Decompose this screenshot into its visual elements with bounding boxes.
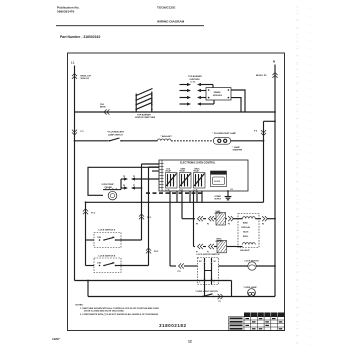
svg-text:LAMP SWITCH: LAMP SWITCH [108,133,123,136]
connector chevron lock feed [83,209,88,214]
svg-text:L1: L1 [71,61,75,65]
svg-text:P4: P4 [231,188,233,191]
connector chevron on L1 rail lower [72,130,77,135]
connector row igniter 1 [180,83,214,88]
relay K1 [166,169,178,192]
wire bottom bus [88,296,275,298]
connector chevron on N rail [272,73,277,78]
node L1 [71,61,75,65]
svg-text:* FLUORESCENT LAMP: * FLUORESCENT LAMP [213,132,237,135]
wire main low-voltage bus [86,201,264,203]
notes text [76,305,160,317]
oven gas valve [238,214,259,252]
svg-text:TOP BURNER: TOP BURNER [137,114,151,116]
svg-text:50/60 HZ: 50/60 HZ [81,78,90,80]
wire return branch [264,120,276,122]
connector row igniter 4 [180,100,215,106]
label top burner ignitors [188,76,202,83]
wire N rail [274,65,276,297]
svg-text:P5: P5 [228,224,230,226]
svg-text:BK/W: BK/W [100,107,106,109]
svg-text:P3: P3 [219,301,221,303]
svg-text:VALVE: VALVE [243,231,249,234]
svg-text:5995391479: 5995391479 [57,10,74,14]
oven lamp LP1 [243,286,257,297]
wire lock A to chevron [121,239,142,241]
lock switch A [94,228,121,247]
wire sensor loop top [88,167,159,195]
svg-text:ELECTRONIC OVEN CONTROL: ELECTRONIC OVEN CONTROL [180,162,216,165]
svg-text:RELAY: RELAY [194,170,200,173]
svg-text:1. SWITCHES SHOWN WITH ALL CON: 1. SWITCHES SHOWN WITH ALL CONTROLS OFF … [80,307,159,310]
connector chevron on L1 rail [72,74,77,79]
svg-text:DOOR CLOSED AND DOOR UNLOCKED.: DOOR CLOSED AND DOOR UNLOCKED. [84,310,125,313]
svg-text:OVEN GAS: OVEN GAS [241,226,251,229]
svg-text:TOP BURNER: TOP BURNER [188,76,202,78]
wire L1 rail lower [74,112,76,281]
power supply ground [215,188,233,200]
wire drop to bottom bus left [87,281,89,297]
svg-text:* BALLAST: * BALLAST [161,135,173,138]
ballast L1 [121,140,158,142]
svg-text:* LAMP: * LAMP [233,146,241,149]
svg-text:RELAY: RELAY [166,170,172,173]
wire broil igniter to valve [227,246,239,248]
wire EOC pin stubs [142,164,160,171]
svg-text:COM: COM [97,263,102,265]
broil igniter HTR2 [216,239,227,253]
svg-text:BROIL: BROIL [243,236,248,238]
svg-text:P1: P1 [133,185,135,187]
wire L1 rail [74,66,76,113]
svg-text:SUPPLY: SUPPLY [215,198,222,200]
broil igniter row [194,244,218,254]
wire lock motor feed [170,263,198,273]
lock motor M1 [219,260,276,270]
relay K3 [194,169,206,192]
connector chevron lock B right [146,248,151,253]
header rule [56,25,204,27]
svg-text:BK/W-1 5P: BK/W-1 5P [256,75,267,77]
electronic oven control U2 [159,160,248,191]
svg-text:2. COMPONENTS WITH (*) IS IN N: 2. COMPONENTS WITH (*) IS IN NOT SHOWN I… [80,313,159,316]
wire probe upper lead with connector [121,176,159,190]
EOC terminal number labels [146,192,202,194]
node N [273,60,276,64]
connector row igniter 2 [180,89,207,92]
wire lamp to return [231,140,264,142]
fluorescent lamp FL1 [214,137,231,144]
svg-text:* OVEN LAMP: * OVEN LAMP [243,286,257,289]
svg-text:LOCK MOTOR SWITCH: LOCK MOTOR SWITCH [197,254,220,256]
wire spark module out upper [231,90,245,112]
svg-text:N L1: N L1 [180,189,184,191]
svg-text:LOCK SWITCH B: LOCK SWITCH B [99,255,116,257]
connector chevron lock A right [139,214,144,219]
diagram border frame [68,53,285,331]
svg-text:P2: P2 [207,224,209,226]
wire top bus [75,111,276,113]
relay K2 [180,168,192,192]
svg-text:12: 12 [188,339,192,343]
lock motor switch state table [229,313,285,331]
wire vertical to lock switch A [141,164,143,240]
label diagram number [159,323,187,328]
connector chevron on return branch [261,130,266,135]
wire L1 rail bottom turn [75,280,232,282]
wire drop to bottom bus right [231,281,233,297]
oven light switch [195,291,223,303]
fluorescent lamp switch S1 [75,140,109,142]
svg-text:318002182: 318002182 [159,323,187,328]
wire bake igniter to valve [226,216,239,226]
wire lock B to chevron [121,265,149,267]
svg-text:GAS VALVE: GAS VALVE [240,249,250,252]
svg-text:P9: P9 [123,176,125,178]
svg-text:* OVEN LIGHT SWITCH: * OVEN LIGHT SWITCH [195,291,218,293]
wire dashed to fluorescent lamp [171,140,213,142]
top burner ignitor switch bank [135,89,156,120]
svg-text:* FLUORESCENT: * FLUORESCENT [107,132,125,134]
svg-text:P8: P8 [196,224,198,226]
svg-text:LOCK SWITCH A: LOCK SWITCH A [99,228,116,231]
header publication text [57,6,185,40]
wire probe lower lead with connector [121,185,142,190]
svg-text:Part Number - 316002162: Part Number - 316002162 [60,35,100,39]
bake igniter HTR1 [215,210,226,225]
svg-text:RELAY: RELAY [180,170,186,173]
svg-text:IGNITOR SWITCHES: IGNITOR SWITCHES [135,117,156,119]
terminal strip [161,160,163,191]
oven temperature probe RT1 [102,184,122,200]
svg-text:TG/36/CCSG: TG/36/CCSG [157,6,176,10]
wire spark module out lower [231,98,241,112]
svg-text:NOTES:: NOTES: [76,305,84,307]
footer page number [188,339,192,343]
connector chevron on top bus [104,109,109,114]
svg-text:1 2 3 4: 1 2 3 4 [190,80,195,83]
wire valve to N rail [259,216,276,226]
bake igniter row [182,216,216,226]
svg-text:10/97: 10/97 [52,337,60,341]
clock display U3 [211,171,227,187]
wire vertical to lock switch B [148,167,150,266]
svg-text:SPARK: SPARK [214,91,222,94]
svg-text:P70: P70 [178,271,181,273]
svg-text:STARTER: STARTER [233,148,243,151]
svg-text:P4: P4 [262,223,264,226]
svg-text:P6: P6 [123,185,125,187]
svg-text:P3: P3 [133,176,135,178]
footer date [52,337,60,341]
connector row igniter 3 [180,96,207,99]
svg-text:WIRING DIAGRAM: WIRING DIAGRAM [157,20,185,24]
wire lock branch left [85,202,87,265]
svg-text:COM: COM [97,237,102,239]
spark module U1 [206,88,231,100]
svg-text:CLOCK: CLOCK [214,181,221,183]
scan artifacts (faint colored dot columns) [42,6,310,346]
lock switch B [94,255,121,272]
svg-text:MODULE: MODULE [213,95,223,97]
wire motor switch drop [204,285,206,297]
lock motor switch [197,254,220,285]
wire EOC drops [170,191,202,266]
